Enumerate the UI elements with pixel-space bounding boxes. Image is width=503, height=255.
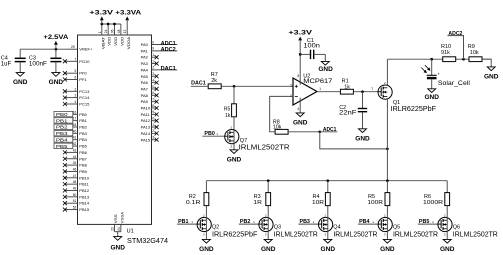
resistor R5 1k: [224, 86, 237, 119]
wire rail to R5: [386, 181, 388, 193]
svg-text:0: 0: [152, 117, 154, 121]
IC U1 left pin PF1: [63, 76, 78, 82]
svg-text:3: 3: [152, 136, 154, 140]
svg-text:1uF: 1uF: [1, 62, 12, 68]
IC U1 left pin PB8: [63, 161, 78, 167]
power flag +3.3V opamp: [288, 30, 313, 85]
svg-text:PB9: PB9: [79, 169, 87, 174]
svg-text:4: 4: [75, 100, 77, 104]
resistor R4: [312, 193, 330, 206]
svg-text:GND: GND: [199, 246, 214, 253]
svg-text:6: 6: [152, 91, 154, 95]
ground right of R9: [484, 67, 499, 81]
svg-text:MCP617: MCP617: [303, 79, 333, 85]
svg-text:PA5: PA5: [141, 74, 149, 79]
svg-text:PA0: PA0: [141, 42, 149, 47]
resistor R7: [208, 72, 221, 89]
wire R9 to ground: [482, 59, 491, 67]
svg-text:PB1: PB1: [56, 118, 68, 124]
IC U1 left pin PB4: [54, 136, 78, 144]
ground under Q6: [440, 239, 455, 253]
wire R7 to opamp +in: [221, 85, 293, 87]
svg-text:PB4: PB4: [79, 137, 87, 142]
IC U1 left pin PB2: [54, 123, 78, 131]
junction C2 tap: [361, 90, 364, 93]
resistor R6: [423, 193, 450, 206]
junction solar tap: [430, 58, 433, 61]
svg-text:3: 3: [290, 84, 292, 88]
IC U1 right pin PA8: [152, 91, 159, 97]
svg-text:GND: GND: [110, 244, 125, 251]
IC U1 right pin PA9: [152, 97, 159, 103]
svg-text:52: 52: [73, 206, 77, 210]
svg-text:U1: U1: [127, 229, 134, 235]
svg-text:PB4: PB4: [56, 137, 68, 143]
svg-text:+3.3V: +3.3V: [89, 9, 114, 16]
IC U1 left pin PB6: [63, 148, 78, 154]
svg-text:43: 43: [73, 148, 77, 152]
svg-text:17: 17: [73, 117, 77, 121]
svg-text:PB2: PB2: [79, 125, 87, 130]
svg-text:PA11: PA11: [141, 112, 151, 117]
svg-text:Q4: Q4: [333, 225, 340, 231]
svg-text:GND: GND: [440, 246, 455, 253]
svg-text:49: 49: [73, 187, 77, 191]
svg-text:PB2: PB2: [56, 125, 68, 131]
svg-text:GND: GND: [227, 156, 242, 163]
resistor R3: [253, 193, 270, 206]
IC U1 bottom pins VSS/VSSA: [111, 211, 125, 236]
resistor R2: [186, 193, 209, 206]
svg-text:PB7: PB7: [79, 156, 87, 161]
junction C1 tap: [299, 53, 302, 56]
label PB0 net: [202, 131, 225, 137]
svg-text:PA15: PA15: [141, 137, 151, 142]
svg-text:GND: GND: [424, 94, 439, 101]
junction ADC1 node: [318, 130, 321, 133]
wire VREF+ rail: [20, 48, 65, 50]
IC U1 STM32G474 body: [78, 35, 169, 245]
svg-text:10R: 10R: [312, 200, 324, 206]
svg-text:PA4: PA4: [141, 67, 149, 72]
svg-text:GND: GND: [13, 79, 28, 86]
svg-text:2: 2: [75, 87, 77, 91]
wire ADC1 sense to Q1 source: [320, 132, 388, 149]
svg-text:0.1R: 0.1R: [186, 200, 201, 206]
svg-text:ADC2: ADC2: [448, 31, 462, 37]
svg-text:IRLR6225PbF: IRLR6225PbF: [391, 106, 436, 113]
wire Q1 source: [386, 99, 388, 181]
svg-text:100nF: 100nF: [29, 62, 47, 68]
svg-text:1: 1: [152, 123, 154, 127]
svg-text:91k: 91k: [441, 50, 450, 56]
svg-text:16: 16: [73, 110, 77, 114]
svg-text:13: 13: [123, 29, 127, 33]
svg-text:100R: 100R: [367, 200, 383, 206]
svg-text:+3.3VA: +3.3VA: [115, 9, 141, 16]
svg-text:50: 50: [73, 193, 77, 197]
svg-text:PB5: PB5: [56, 144, 68, 150]
svg-text:VDD: VDD: [120, 37, 124, 46]
svg-text:PA8: PA8: [141, 93, 149, 98]
svg-text:1: 1: [371, 86, 373, 90]
svg-text:7: 7: [152, 97, 154, 101]
svg-text:PB3: PB3: [79, 131, 87, 136]
svg-text:IRLML2502TR: IRLML2502TR: [453, 232, 498, 239]
svg-text:PB0: PB0: [56, 112, 68, 118]
svg-text:PC14: PC14: [79, 95, 90, 100]
capacitor C1: [300, 38, 325, 61]
svg-text:IRLML2502TR: IRLML2502TR: [274, 232, 318, 239]
wire load rail: [206, 180, 447, 182]
svg-text:+: +: [437, 71, 440, 76]
svg-text:PB3: PB3: [300, 219, 311, 225]
IC U1 left pin PB15: [63, 206, 78, 212]
IC U1 left pin PB13: [63, 193, 78, 199]
ground under U1: [110, 237, 125, 252]
capacitor C4: [1, 49, 26, 72]
svg-text:Q7: Q7: [240, 138, 247, 144]
svg-text:48: 48: [73, 180, 77, 184]
wire +3.3V top bus: [102, 23, 121, 25]
svg-text:42: 42: [73, 142, 77, 146]
svg-text:3: 3: [75, 94, 77, 98]
svg-text:ADC1: ADC1: [323, 127, 337, 133]
svg-text:PA12: PA12: [141, 118, 151, 123]
transistor Q5 IRLML2502TR: [378, 206, 438, 240]
svg-text:PB11: PB11: [79, 182, 89, 187]
svg-text:24: 24: [117, 227, 121, 231]
svg-text:Q3: Q3: [274, 225, 281, 231]
svg-text:PF0: PF0: [79, 71, 87, 76]
svg-text:48: 48: [117, 29, 121, 33]
svg-text:2: 2: [152, 66, 154, 70]
svg-text:PC13: PC13: [79, 89, 90, 94]
svg-text:PB0: PB0: [204, 131, 215, 137]
svg-text:PF1: PF1: [79, 77, 87, 82]
svg-text:PA10: PA10: [141, 106, 151, 111]
svg-text:PB1: PB1: [178, 219, 189, 225]
svg-text:46: 46: [73, 167, 77, 171]
power flag +2.5VA: [43, 34, 68, 49]
junction ADC2 tap: [462, 58, 465, 61]
svg-text:PA1: PA1: [141, 48, 149, 53]
IC U1 left pin PC14: [63, 94, 78, 100]
svg-text:Q2: Q2: [212, 225, 219, 231]
transistor Q2 IRLR6225PbF: [197, 206, 257, 240]
ground under C3: [49, 73, 64, 87]
svg-text:IRLML2502TR: IRLML2502TR: [393, 232, 438, 239]
svg-text:1R: 1R: [253, 200, 262, 206]
wire rail to R4: [327, 181, 329, 193]
solar cell Solar_Cell: [421, 59, 470, 89]
ground under Q7: [227, 150, 242, 164]
svg-text:R5: R5: [224, 107, 231, 113]
svg-text:41: 41: [73, 136, 77, 140]
svg-text:+3.3V: +3.3V: [288, 30, 313, 37]
wire opamp -in feedback: [270, 96, 293, 131]
wire drain rail: [387, 58, 491, 60]
svg-text:PA6: PA6: [141, 80, 149, 85]
svg-text:2: 2: [290, 94, 292, 98]
svg-text:VREF+: VREF+: [79, 47, 93, 52]
transistor Q3 IRLML2502TR: [259, 206, 318, 240]
label PB2 net: [239, 219, 259, 225]
wire Q1 drain: [386, 59, 388, 85]
junction rail B2: [267, 179, 270, 182]
svg-text:PA2: PA2: [141, 55, 149, 60]
IC U1 left pin PB3: [54, 129, 78, 137]
wire R8 to node: [288, 131, 320, 133]
svg-text:1: 1: [152, 59, 154, 63]
svg-text:1: 1: [98, 31, 102, 33]
svg-text:PB15: PB15: [79, 207, 90, 212]
IC U1 right pin PA10: [152, 104, 159, 110]
svg-text:2k: 2k: [211, 78, 217, 84]
IC U1 right pin PA14: [152, 129, 159, 135]
IC U1 top power pins VBAT/VDD/VDDA: [98, 24, 131, 49]
svg-text:1k: 1k: [225, 113, 231, 119]
label PB1 net: [177, 219, 197, 225]
svg-text:51: 51: [73, 199, 77, 203]
IC U1 left pin VREF+: [65, 45, 78, 49]
ground under solar cell: [424, 89, 439, 101]
ground under C2: [355, 129, 370, 143]
svg-text:IRLML2502TR: IRLML2502TR: [333, 232, 377, 239]
svg-text:ADC1: ADC1: [161, 41, 176, 47]
svg-text:4: 4: [152, 78, 154, 82]
transistor Q1 IRLR6225PbF: [378, 81, 436, 113]
svg-text:PB4: PB4: [359, 219, 370, 225]
svg-text:2: 2: [152, 129, 154, 133]
ground under Q2: [199, 239, 214, 253]
svg-text:DAC1: DAC1: [191, 81, 206, 87]
power flag +3.3V: [89, 9, 114, 24]
IC U1 left pin PB14: [63, 199, 78, 205]
label PB3 net: [298, 219, 318, 225]
svg-text:9: 9: [152, 110, 154, 114]
svg-text:PB8: PB8: [79, 163, 87, 168]
resistor R1: [340, 79, 353, 95]
label PB5 net: [418, 219, 438, 225]
svg-text:PB5: PB5: [79, 144, 87, 149]
svg-text:VDD: VDD: [108, 37, 112, 46]
svg-text:40: 40: [73, 129, 77, 133]
IC U1 right pin PA7: [152, 85, 159, 91]
wire rail to R2: [205, 181, 207, 193]
svg-text:DAC1: DAC1: [161, 66, 176, 72]
ground under C1: [318, 61, 333, 72]
junction top bus 1: [100, 23, 103, 26]
IC U1 left pin PB7: [63, 155, 78, 161]
svg-text:PB10: PB10: [79, 175, 90, 180]
svg-text:GND: GND: [293, 120, 308, 127]
IC U1 left pin PB10: [63, 174, 78, 180]
svg-text:6: 6: [75, 76, 77, 80]
IC U1 right pin PA11: [152, 110, 159, 116]
svg-text:ADC2: ADC2: [161, 47, 176, 53]
svg-text:GND: GND: [380, 246, 395, 253]
junction top bus 3: [113, 23, 116, 26]
IC U1 left pin PB1: [54, 117, 78, 125]
svg-text:10k: 10k: [273, 125, 282, 131]
svg-text:1: 1: [152, 53, 154, 57]
wire opamp out to R1: [317, 91, 340, 93]
svg-text:PB0: PB0: [79, 112, 87, 117]
IC U1 left pin PG10: [63, 57, 78, 63]
svg-text:C4: C4: [1, 55, 8, 61]
svg-text:PB2: PB2: [240, 219, 251, 225]
svg-text:Q5: Q5: [393, 225, 400, 231]
svg-text:10k: 10k: [470, 50, 479, 56]
svg-text:23: 23: [111, 227, 115, 231]
IC U1 right pin PA0: [152, 40, 178, 47]
op-amp V- to ground: [299, 98, 301, 113]
transistor Q6 IRLML2502TR: [438, 206, 498, 240]
ground under Q3: [261, 239, 276, 253]
transistor Q7 IRLML2502TR: [225, 126, 290, 152]
capacitor C2: [339, 92, 367, 129]
ground under Q5: [380, 239, 395, 253]
svg-text:PG10: PG10: [79, 59, 90, 64]
svg-text:100n: 100n: [303, 44, 320, 50]
IC U1 left pin PB12: [63, 187, 78, 193]
svg-text:9: 9: [152, 47, 154, 51]
IC U1 right pin PA12: [152, 117, 159, 123]
svg-text:C3: C3: [29, 55, 36, 61]
svg-text:PA3: PA3: [141, 61, 149, 66]
svg-text:R7: R7: [211, 72, 218, 78]
junction sense node: [386, 148, 389, 151]
IC U1 left pin PB9: [63, 167, 78, 173]
svg-text:22nF: 22nF: [339, 111, 357, 117]
wire rail to R3: [267, 181, 269, 193]
transistor Q4 IRLML2502TR: [319, 206, 378, 240]
IC U1 right pin PA6: [152, 78, 159, 84]
svg-text:8: 8: [297, 74, 299, 78]
svg-text:STM32G474: STM32G474: [127, 238, 168, 245]
svg-text:45: 45: [73, 161, 77, 165]
svg-text:PA7: PA7: [141, 86, 149, 91]
svg-text:GND: GND: [355, 135, 370, 142]
svg-text:PA14: PA14: [141, 131, 151, 136]
power flag +3.3VA: [115, 9, 141, 35]
label DAC1 net: [191, 81, 208, 87]
IC U1 right pin PA13: [152, 123, 159, 129]
svg-text:+2.5VA: +2.5VA: [43, 34, 68, 41]
svg-text:18: 18: [73, 123, 77, 127]
svg-text:0: 0: [152, 40, 154, 44]
IC U1 left pin PB0: [54, 110, 78, 118]
IC U1 left pin names: [79, 47, 93, 212]
op-amp U2 MCP617: [290, 73, 333, 111]
resistor R5: [367, 193, 389, 206]
svg-text:47: 47: [73, 174, 77, 178]
svg-text:GND: GND: [484, 74, 499, 81]
svg-text:1000R: 1000R: [423, 200, 443, 206]
IC U1 left pin PF0: [63, 69, 78, 75]
svg-text:PA13: PA13: [141, 125, 151, 130]
svg-text:5: 5: [152, 85, 154, 89]
resistor R10: [441, 44, 456, 62]
IC U1 right pin PA5: [152, 72, 159, 78]
label ADC2 net: [447, 31, 463, 59]
svg-text:PA9: PA9: [141, 99, 149, 104]
svg-text:PC15: PC15: [79, 102, 90, 107]
junction rail B3: [326, 179, 329, 182]
ground under C4: [13, 73, 28, 87]
wire rail to R6: [446, 181, 448, 193]
IC U1 right pin PA4: [152, 66, 178, 73]
svg-text:PB3: PB3: [56, 131, 68, 137]
svg-text:VSSA: VSSA: [120, 211, 124, 223]
svg-text:GND: GND: [321, 246, 336, 253]
IC U1 left pin PC13: [63, 87, 78, 93]
resistor R8: [273, 119, 288, 134]
svg-text:IRLML2502TR: IRLML2502TR: [239, 144, 290, 151]
wire R1 to Q1 gate: [353, 86, 378, 91]
IC U1 left pin PC15: [63, 100, 78, 106]
svg-text:GND: GND: [318, 66, 333, 73]
svg-text:VDDA: VDDA: [127, 36, 131, 49]
svg-text:44: 44: [73, 155, 77, 159]
svg-text:GND: GND: [261, 246, 276, 253]
svg-text:7: 7: [75, 57, 77, 61]
svg-text:1: 1: [319, 87, 321, 91]
capacitor C3: [29, 49, 62, 72]
svg-text:VDD: VDD: [114, 37, 118, 46]
svg-text:1k: 1k: [344, 84, 350, 90]
IC U1 left pin PB5: [54, 142, 78, 150]
svg-text:IRLR6225PbF: IRLR6225PbF: [212, 232, 257, 239]
svg-text:PB13: PB13: [79, 194, 90, 199]
junction top bus 2: [107, 23, 110, 26]
svg-text:20: 20: [71, 45, 75, 49]
svg-text:PB5: PB5: [419, 219, 430, 225]
svg-text:PB6: PB6: [79, 150, 87, 155]
svg-text:PB12: PB12: [79, 188, 90, 193]
ground under Q4: [321, 239, 336, 253]
svg-text:Solar_Cell: Solar_Cell: [438, 81, 470, 87]
svg-text:PB1: PB1: [79, 118, 87, 123]
IC U1 right pin PA3: [152, 59, 159, 65]
svg-text:VSS: VSS: [114, 214, 118, 224]
ground under U2: [293, 113, 308, 127]
IC U1 right pin PA2: [152, 53, 159, 59]
junction R7/R5 node: [233, 85, 236, 88]
IC U1 right pin PA15: [152, 136, 159, 142]
resistor R9: [468, 44, 482, 62]
label PB4 net: [358, 219, 378, 225]
svg-text:5: 5: [75, 69, 77, 73]
wire R5 to Q7 drain: [233, 117, 235, 130]
junction rail B4: [386, 179, 389, 182]
IC U1 right pin names: [141, 42, 151, 142]
svg-text:4: 4: [297, 107, 299, 111]
svg-text:24: 24: [104, 29, 108, 33]
svg-text:Q6: Q6: [453, 225, 460, 231]
svg-text:PB14: PB14: [79, 201, 90, 206]
junction +2.5VA node: [55, 48, 58, 51]
svg-text:8: 8: [152, 104, 154, 108]
svg-text:36: 36: [111, 29, 115, 33]
IC U1 right pin PA1: [152, 47, 178, 54]
svg-text:3: 3: [152, 72, 154, 76]
IC U1 left pin PB11: [63, 180, 78, 186]
label ADC1 net: [320, 127, 338, 133]
svg-text:GND: GND: [49, 79, 64, 86]
svg-text:VBAT: VBAT: [101, 36, 105, 49]
